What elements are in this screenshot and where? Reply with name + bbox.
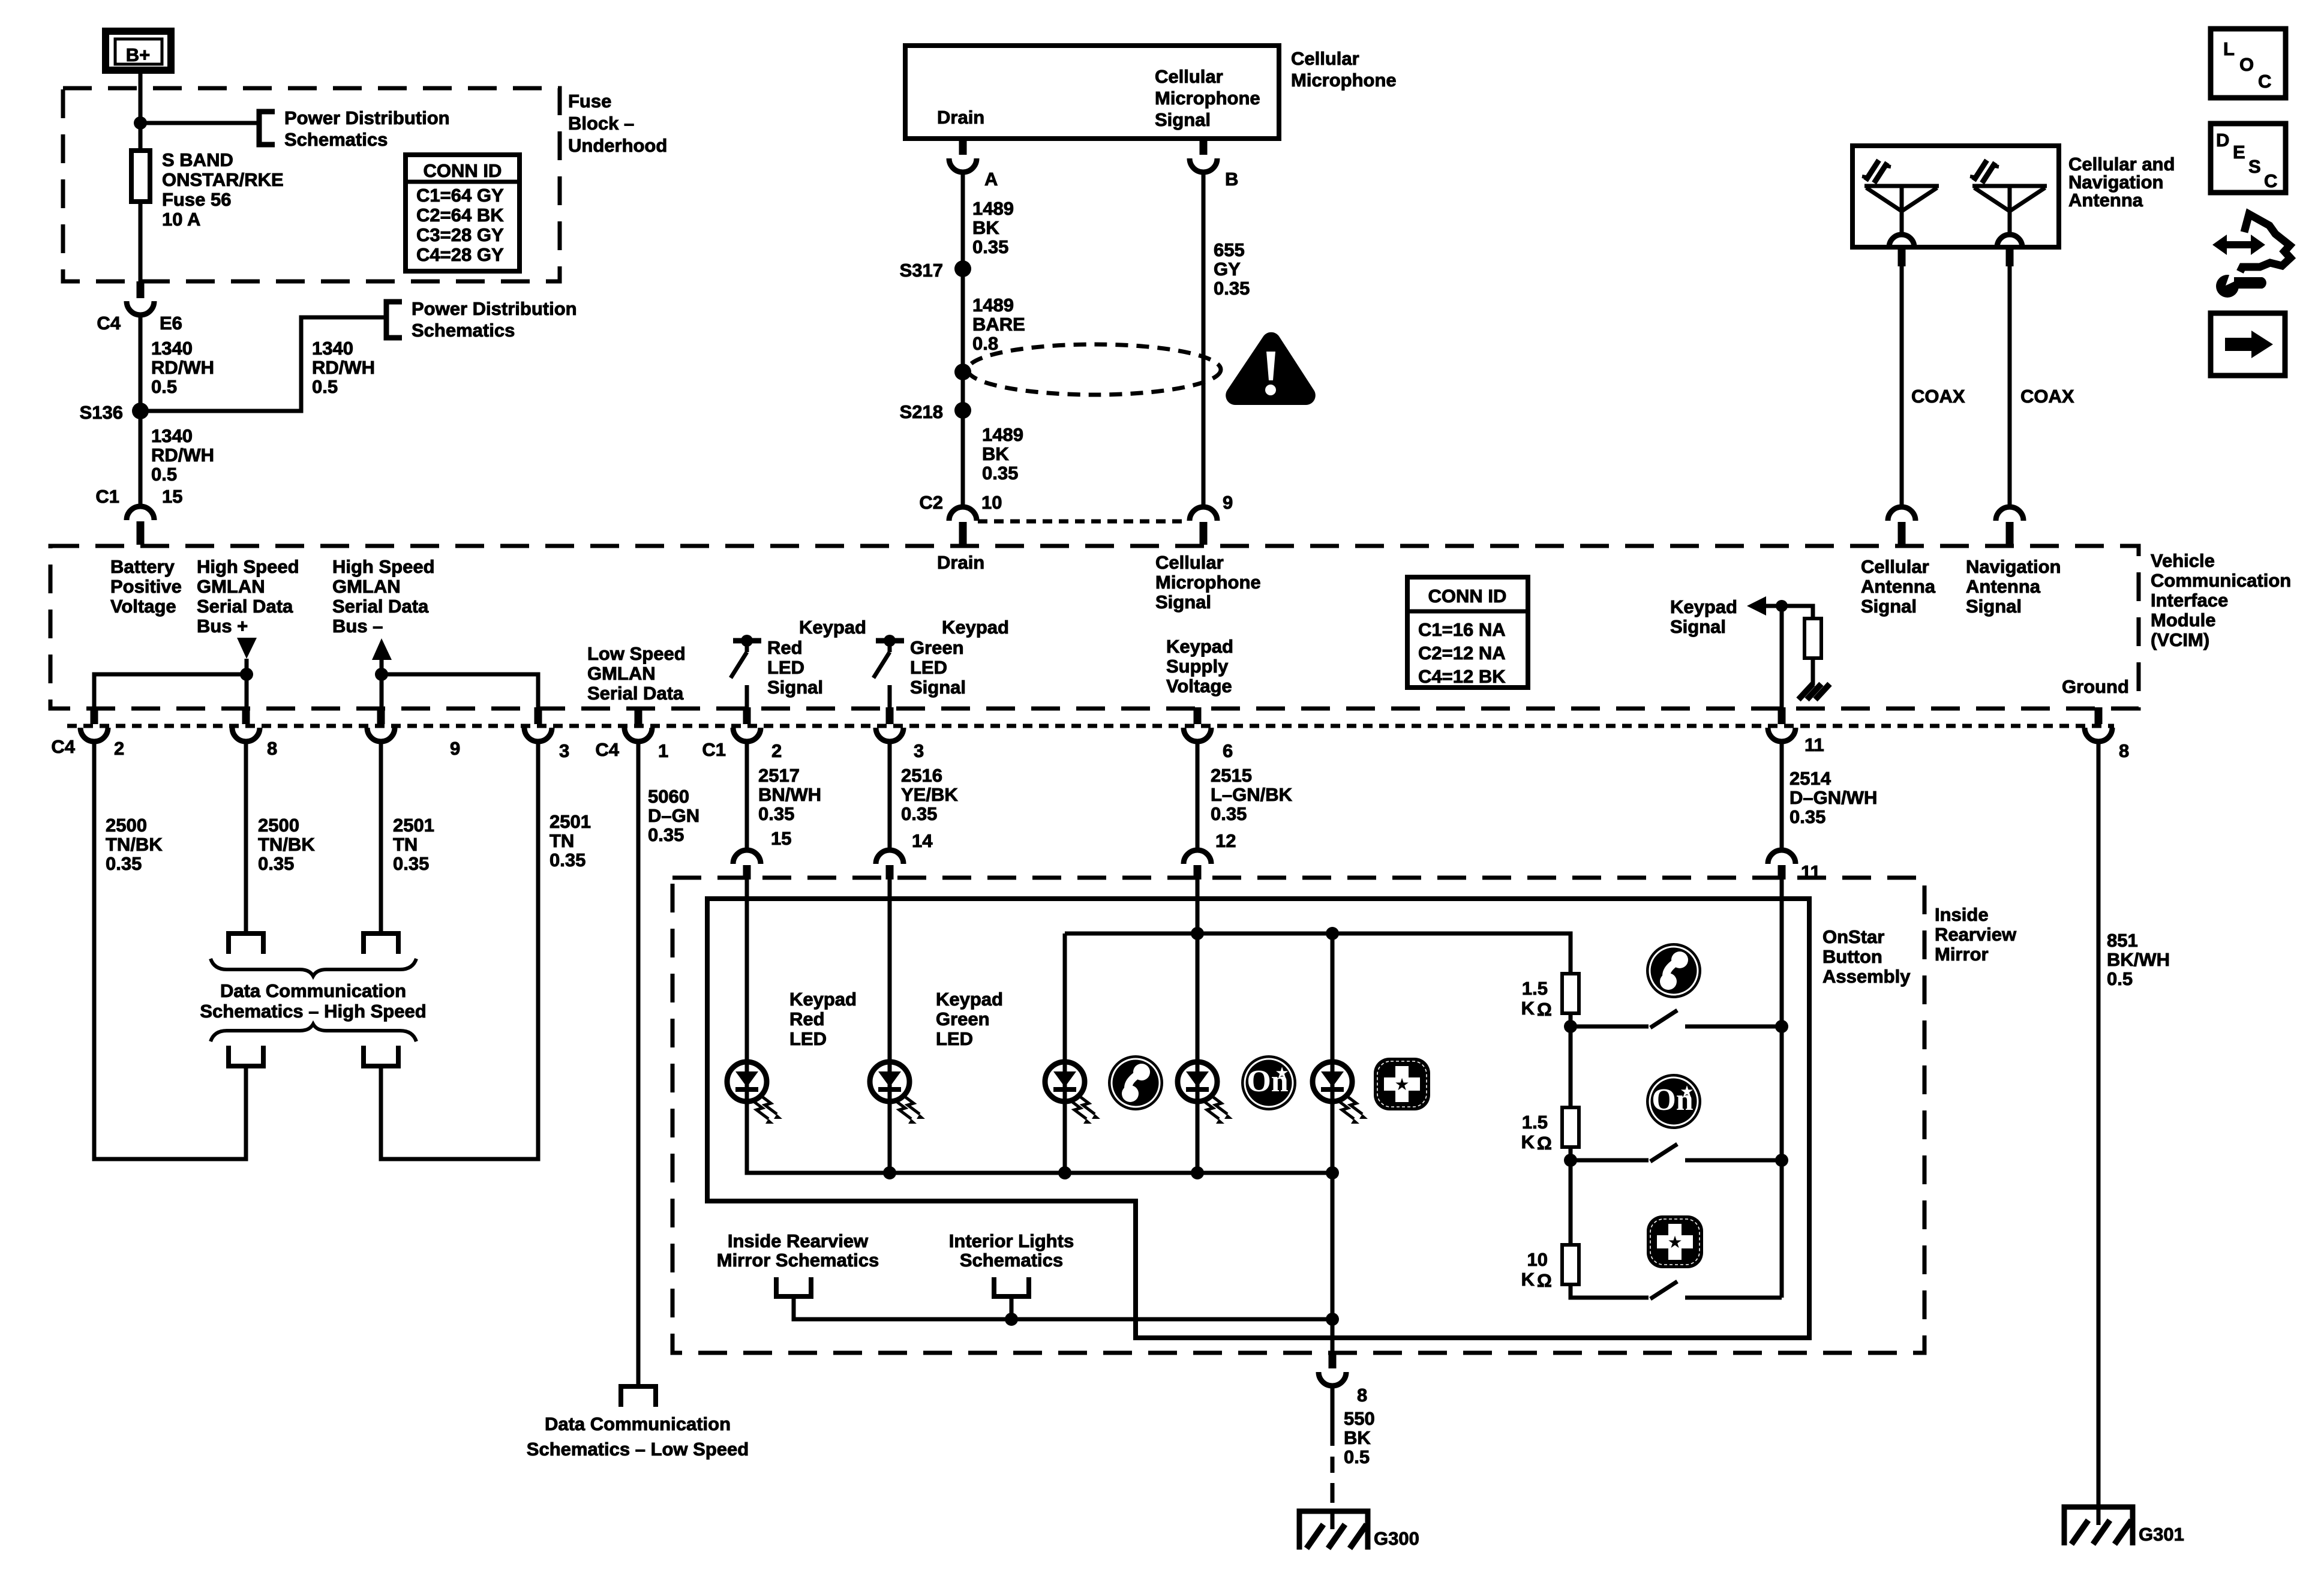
svg-text:C4: C4 (51, 736, 75, 757)
svg-text:2501: 2501 (393, 815, 434, 836)
svg-text:S218: S218 (900, 401, 943, 422)
wire status LED 3 (1331, 933, 1335, 1062)
svg-text:Serial Data: Serial Data (332, 596, 429, 617)
svg-text:TN/BK: TN/BK (258, 834, 315, 855)
svg-text:2516: 2516 (901, 765, 942, 786)
status LED 3 (1313, 1062, 1368, 1124)
svg-text:Signal: Signal (1966, 596, 2022, 617)
svg-text:5060: 5060 (648, 786, 689, 807)
svg-text:Battery: Battery (110, 556, 175, 577)
svg-text:Low Speed: Low Speed (587, 643, 686, 664)
svg-text:Drain: Drain (937, 552, 984, 573)
microphone pin A (959, 139, 967, 155)
svg-text:1: 1 (658, 740, 668, 761)
svg-text:Fuse: Fuse (568, 91, 611, 112)
svg-text:Ω: Ω (1537, 1270, 1552, 1291)
connector pin 2 (91, 707, 98, 724)
connector pin 8 onstar ground (1329, 1353, 1337, 1368)
svg-text:1489: 1489 (972, 198, 1014, 219)
svg-text:BK: BK (1344, 1427, 1371, 1448)
connector pin 11 (1778, 707, 1786, 724)
svg-text:Green: Green (910, 637, 964, 658)
svg-text:Fuse 56: Fuse 56 (162, 189, 231, 210)
navigation antenna element (1970, 160, 2047, 247)
vehicle repair reference icon (2212, 214, 2290, 298)
svg-text:Cellular: Cellular (1155, 66, 1223, 87)
svg-text:YE/BK: YE/BK (901, 784, 958, 805)
connector pin 9 (377, 707, 385, 724)
svg-text:C1: C1 (95, 486, 119, 507)
wire keypad green LED (888, 878, 892, 1062)
emergency button switch (1650, 1281, 1677, 1299)
svg-text:Schematics: Schematics (412, 320, 515, 341)
wire B+ down to fuse (139, 70, 143, 151)
svg-text:Communication: Communication (2151, 570, 2291, 591)
svg-text:Interior Lights: Interior Lights (949, 1230, 1074, 1251)
svg-text:2500: 2500 (258, 815, 299, 836)
svg-text:TN: TN (393, 834, 418, 855)
svg-text:Mirror: Mirror (1935, 944, 1989, 965)
wire 2516 YE/BK keypad green LED (888, 742, 892, 850)
svg-text:CONN ID: CONN ID (1428, 586, 1507, 607)
svg-text:2501: 2501 (550, 811, 591, 832)
svg-text:1340: 1340 (151, 338, 193, 359)
power distribution schematics reference bracket (top) (259, 112, 275, 145)
wire pin 2 to bus + (94, 674, 247, 707)
svg-text:0.5: 0.5 (1344, 1446, 1370, 1467)
svg-text:C4: C4 (595, 739, 619, 760)
wire green LED to return bus (888, 1101, 892, 1173)
svg-text:D–GN/WH: D–GN/WH (1789, 787, 1877, 808)
inside rearview mirror dashed box (672, 878, 1924, 1353)
coax connector cellular (1888, 507, 1915, 521)
svg-text:C1=64 GY: C1=64 GY (416, 185, 504, 206)
warning note triangle (1226, 332, 1316, 405)
wire keypad red LED (745, 878, 749, 1062)
wire S136 to VCIM C1 (139, 411, 143, 506)
ground G300 (1299, 1511, 1368, 1550)
connector C4 terminal E6 (137, 281, 145, 298)
svg-text:C4=28 GY: C4=28 GY (416, 244, 504, 265)
svg-text:S136: S136 (80, 402, 123, 423)
svg-text:D–GN: D–GN (648, 805, 699, 826)
svg-text:K: K (1521, 1269, 1535, 1290)
svg-text:K: K (1521, 998, 1535, 1019)
svg-text:1489: 1489 (972, 295, 1014, 316)
svg-text:E6: E6 (160, 313, 182, 334)
svg-text:0.5: 0.5 (2107, 968, 2133, 989)
wire 2501 TN pin 9 (379, 742, 383, 933)
internal ground symbol (1798, 684, 1830, 700)
svg-text:3: 3 (914, 740, 924, 761)
svg-text:Voltage: Voltage (110, 596, 176, 617)
cellular antenna element (1862, 160, 1939, 247)
svg-text:★: ★ (1394, 1075, 1409, 1094)
svg-text:Cellular: Cellular (1861, 556, 1929, 577)
svg-text:C2=64 BK: C2=64 BK (416, 205, 504, 226)
svg-text:Rearview: Rearview (1935, 924, 2017, 945)
wire 2501 TN pin 3 (381, 742, 538, 1159)
splice S317 (954, 260, 971, 277)
wire status LED 2 (1196, 933, 1200, 1062)
wire C4 to S136 (139, 315, 143, 411)
wire 5060 D-GN low speed GMLAN (636, 742, 641, 1386)
brace lower (211, 1024, 416, 1041)
keypad green LED signal switch (873, 635, 904, 678)
wire 2515 L-GN/BK keypad supply voltage (1196, 742, 1200, 850)
cellular microphone signal wire B (1202, 172, 1206, 507)
shield dashed ellipse (968, 344, 1221, 395)
svg-text:C4: C4 (97, 313, 121, 334)
svg-text:Cellular: Cellular (1155, 552, 1224, 573)
svg-text:Microphone: Microphone (1155, 88, 1260, 109)
svg-text:★: ★ (1667, 1233, 1682, 1251)
svg-text:C2: C2 (919, 492, 943, 513)
svg-text:2517: 2517 (758, 765, 800, 786)
svg-text:S BAND: S BAND (162, 149, 233, 170)
cellular microphone box (905, 46, 1279, 139)
svg-text:Keypad: Keypad (936, 989, 1003, 1010)
power distribution schematics reference bracket (S136 branch) (386, 302, 402, 338)
svg-text:BK: BK (972, 217, 999, 238)
svg-text:0.35: 0.35 (648, 824, 684, 845)
svg-text:Data Communication: Data Communication (220, 980, 406, 1001)
svg-text:Antenna: Antenna (1966, 576, 2041, 597)
cellular and navigation antenna box (1852, 146, 2059, 247)
svg-text:0.8: 0.8 (972, 333, 998, 354)
data communication high speed reference brackets (229, 933, 263, 954)
resistor 1.5K (onstar) (1562, 1107, 1579, 1147)
keypad supply bus (1065, 933, 1571, 974)
wire 2517 BN/WH keypad red LED (745, 742, 749, 850)
svg-text:Signal: Signal (1861, 596, 1917, 617)
svg-text:GY: GY (1214, 259, 1241, 280)
svg-text:15: 15 (771, 828, 791, 849)
svg-text:Cellular: Cellular (1291, 48, 1359, 69)
svg-text:Serial Data: Serial Data (197, 596, 293, 617)
svg-text:C: C (2264, 170, 2277, 191)
wire resistor 3 to switch 3 (1571, 1284, 1649, 1298)
wire bus - to pin 3 (382, 674, 538, 707)
connector pin 8 (242, 707, 250, 724)
svg-text:GMLAN: GMLAN (332, 576, 401, 597)
svg-text:C1: C1 (702, 739, 726, 760)
connector pin 3 (535, 707, 542, 724)
svg-text:2514: 2514 (1789, 768, 1831, 789)
connector pin 15 (733, 850, 761, 864)
svg-text:Schematics: Schematics (960, 1250, 1063, 1271)
svg-text:1340: 1340 (151, 425, 193, 446)
svg-text:Bus +: Bus + (197, 616, 248, 637)
svg-text:Keypad: Keypad (1166, 636, 1233, 657)
brace upper (211, 959, 416, 976)
wire resistor chain node 1 (1569, 1013, 1573, 1107)
junction on B+ feed (134, 116, 147, 130)
keypad signal internal wire (1766, 606, 1782, 707)
wire to power distribution reference (140, 121, 259, 125)
svg-text:550: 550 (1344, 1408, 1375, 1429)
svg-text:0.35: 0.35 (972, 236, 1008, 257)
vehicle communication interface module VCIM dashed box (50, 546, 2139, 709)
svg-text:LED: LED (936, 1028, 973, 1049)
bus + terminator arrow (237, 638, 257, 659)
svg-text:RD/WH: RD/WH (151, 445, 214, 466)
wire resistor to internal ground (1811, 658, 1815, 685)
svg-text:OnStar: OnStar (1822, 926, 1884, 947)
bus - terminator arrow (372, 638, 392, 660)
svg-text:ONSTAR/RKE: ONSTAR/RKE (162, 169, 284, 190)
svg-text:LED: LED (910, 657, 947, 678)
svg-text:GMLAN: GMLAN (587, 663, 656, 684)
resistor 10K (emergency) (1562, 1245, 1579, 1284)
svg-text:2500: 2500 (106, 815, 147, 836)
svg-text:Serial Data: Serial Data (587, 683, 684, 704)
splice S218 (954, 402, 971, 419)
wire 2514 D-GN/WH keypad signal (1780, 742, 1784, 850)
wire interior lights to ground wire (1010, 1296, 1014, 1319)
svg-text:Microphone: Microphone (1291, 70, 1397, 91)
inline connector body dotted line (67, 724, 2114, 728)
svg-text:S317: S317 (900, 260, 943, 281)
svg-text:Bus –: Bus – (332, 616, 383, 637)
connector C2 body dotted line (978, 520, 1188, 524)
svg-text:0.35: 0.35 (106, 853, 142, 874)
svg-text:Underhood: Underhood (568, 135, 667, 156)
svg-text:12: 12 (1215, 830, 1236, 851)
LOC reference icon (2211, 29, 2286, 98)
svg-text:Signal: Signal (767, 677, 823, 698)
svg-text:1.5: 1.5 (1522, 1112, 1548, 1133)
svg-text:C: C (2258, 71, 2271, 92)
wire 2500 TN/BK pin 8 (244, 742, 248, 933)
svg-text:BARE: BARE (972, 314, 1025, 335)
svg-text:Schematics – High Speed: Schematics – High Speed (200, 1001, 426, 1022)
svg-text:0.35: 0.35 (550, 849, 585, 870)
svg-text:0.35: 0.35 (393, 853, 429, 874)
svg-text:8: 8 (267, 738, 277, 759)
onstar icon small (1241, 1055, 1296, 1110)
splice S136 (132, 403, 149, 419)
svg-text:L–GN/BK: L–GN/BK (1211, 784, 1293, 805)
svg-text:Keypad: Keypad (799, 617, 866, 638)
svg-text:851: 851 (2107, 930, 2138, 951)
svg-text:COAX: COAX (2020, 386, 2074, 407)
svg-text:TN/BK: TN/BK (106, 834, 163, 855)
svg-text:Signal: Signal (1155, 592, 1211, 613)
svg-text:B: B (1225, 169, 1238, 190)
keypad signal wire in assembly (1780, 878, 1784, 1298)
svg-text:A: A (984, 169, 998, 190)
svg-text:Schematics – Low Speed: Schematics – Low Speed (527, 1439, 749, 1460)
svg-text:LED: LED (789, 1028, 827, 1049)
svg-text:High Speed: High Speed (197, 556, 299, 577)
svg-text:G301: G301 (2139, 1524, 2184, 1545)
svg-text:0.35: 0.35 (901, 803, 937, 824)
internal resistor (1804, 619, 1821, 658)
svg-text:0.35: 0.35 (982, 463, 1018, 484)
svg-text:Keypad: Keypad (942, 617, 1009, 638)
svg-text:0.35: 0.35 (258, 853, 294, 874)
CONN ID table VCIM (1407, 577, 1528, 688)
connector pin 2 (743, 707, 751, 724)
svg-text:6: 6 (1223, 740, 1233, 761)
drain wire A (961, 172, 965, 507)
svg-text:Positive: Positive (110, 576, 182, 597)
svg-text:14: 14 (912, 830, 933, 851)
phone button icon (1646, 943, 1701, 998)
wire 851 BK/WH ground pin 8 (2097, 742, 2101, 1507)
svg-text:Schematics: Schematics (284, 129, 388, 150)
svg-text:Drain: Drain (937, 107, 984, 128)
svg-text:Inside: Inside (1935, 904, 1989, 925)
svg-text:G300: G300 (1374, 1528, 1419, 1549)
cross icon small (1374, 1058, 1430, 1110)
svg-text:Button: Button (1822, 946, 1882, 967)
svg-text:9: 9 (1223, 492, 1233, 513)
svg-text:O: O (2239, 54, 2254, 75)
svg-text:Assembly: Assembly (1822, 966, 1911, 987)
svg-text:Supply: Supply (1166, 656, 1229, 677)
svg-text:Signal: Signal (1670, 616, 1726, 637)
svg-text:0.5: 0.5 (151, 376, 177, 397)
keypad red LED (727, 1062, 782, 1124)
connector pin 1 (635, 707, 642, 724)
svg-text:Red: Red (789, 1008, 825, 1029)
connector pin 12 (1184, 850, 1211, 864)
svg-text:Microphone: Microphone (1155, 572, 1261, 593)
svg-text:Power Distribution: Power Distribution (284, 107, 450, 128)
wire 550 BK to ground (1331, 1386, 1335, 1446)
svg-text:0.35: 0.35 (1789, 806, 1825, 827)
svg-text:1340: 1340 (312, 338, 353, 359)
wire S136 branch to power distribution (140, 317, 386, 411)
svg-text:2: 2 (114, 738, 124, 759)
coax connector navigation (1996, 507, 2023, 521)
svg-text:GMLAN: GMLAN (197, 576, 265, 597)
phone button switch (1571, 1025, 1649, 1029)
svg-text:(VCIM): (VCIM) (2151, 629, 2209, 650)
onstar button switch (1571, 1158, 1649, 1163)
svg-text:8: 8 (1357, 1385, 1367, 1406)
svg-text:Ω: Ω (1537, 1133, 1552, 1154)
svg-text:11: 11 (1804, 734, 1824, 755)
wire status LED 1 (1063, 933, 1067, 1062)
svg-text:Interface: Interface (2151, 590, 2228, 611)
svg-text:COAX: COAX (1911, 386, 1965, 407)
svg-text:Inside Rearview: Inside Rearview (728, 1230, 869, 1251)
svg-text:Voltage: Voltage (1166, 676, 1232, 697)
wire status LED 3 to ground node (1331, 1101, 1335, 1353)
svg-text:1.5: 1.5 (1522, 978, 1548, 999)
svg-text:Antenna: Antenna (2068, 190, 2143, 211)
keypad red LED signal switch (731, 635, 761, 678)
connector pin 6 (1194, 707, 1202, 724)
fuse block underhood dashed box (63, 88, 560, 281)
wire fuse to connector C4 (139, 202, 143, 281)
svg-text:8: 8 (2119, 740, 2129, 761)
DESC reference icon (2211, 124, 2286, 193)
data communication low speed reference bracket (621, 1386, 656, 1407)
svg-text:Signal: Signal (910, 677, 966, 698)
svg-text:0.5: 0.5 (312, 376, 338, 397)
wire red LED to return bus (747, 1101, 1332, 1173)
svg-text:0.5: 0.5 (151, 464, 177, 485)
svg-text:BK/WH: BK/WH (2107, 949, 2170, 970)
svg-text:0.35: 0.35 (1214, 278, 1250, 299)
svg-text:RD/WH: RD/WH (312, 357, 375, 378)
status LED 2 (1178, 1062, 1233, 1124)
svg-text:0.35: 0.35 (1211, 803, 1247, 824)
wire resistor chain node 2 (1569, 1147, 1573, 1245)
svg-text:Keypad: Keypad (1670, 596, 1737, 617)
svg-text:Module: Module (2151, 610, 2216, 631)
svg-text:BK: BK (982, 443, 1009, 464)
svg-text:BN/WH: BN/WH (758, 784, 821, 805)
svg-text:9: 9 (450, 738, 460, 759)
svg-text:RD/WH: RD/WH (151, 357, 214, 378)
onstar button assembly outline (707, 899, 1809, 1338)
svg-text:CONN ID: CONN ID (424, 160, 502, 181)
svg-text:Signal: Signal (1155, 109, 1211, 130)
phone icon small (1108, 1055, 1163, 1110)
svg-text:655: 655 (1214, 239, 1245, 260)
svg-text:10: 10 (981, 492, 1002, 513)
svg-text:Red: Red (767, 637, 803, 658)
svg-text:Green: Green (936, 1008, 990, 1029)
svg-text:3: 3 (559, 740, 569, 761)
resistor 1.5K (phone) (1562, 974, 1579, 1013)
svg-text:C1=16 NA: C1=16 NA (1418, 619, 1506, 640)
svg-text:C4=12 BK: C4=12 BK (1418, 666, 1506, 687)
svg-text:2515: 2515 (1211, 765, 1252, 786)
svg-text:C2=12 NA: C2=12 NA (1418, 643, 1506, 664)
svg-text:Vehicle: Vehicle (2151, 550, 2215, 571)
svg-text:S: S (2248, 156, 2261, 177)
fuse 56 S BAND ONSTAR/RKE 10A (131, 151, 150, 202)
junction at shield ellipse (954, 364, 971, 380)
battery positive B+ symbol (106, 31, 171, 70)
microphone pin B (1200, 139, 1208, 155)
svg-text:10 A: 10 A (162, 209, 200, 230)
svg-text:B+: B+ (126, 44, 151, 65)
connector pin 14 (876, 850, 903, 864)
wire status LED 1 to return bus (1063, 1101, 1067, 1173)
svg-text:Data Communication: Data Communication (545, 1413, 731, 1434)
svg-text:Antenna: Antenna (1861, 576, 1936, 597)
connector pin 3 (886, 707, 894, 724)
connector pin 8 (2095, 707, 2103, 724)
svg-text:Mirror Schematics: Mirror Schematics (717, 1250, 879, 1271)
wire bus + to pin 8 (245, 659, 249, 707)
svg-text:★: ★ (1275, 1064, 1289, 1082)
wire status LED 2 to return bus (1196, 1101, 1200, 1173)
CONN ID table fuse block (406, 155, 520, 271)
svg-text:Ω: Ω (1537, 999, 1552, 1020)
svg-text:D: D (2216, 130, 2229, 151)
internal pullup wire (1782, 606, 1813, 619)
status LED 1 (1045, 1062, 1100, 1124)
forward reference arrow icon (2211, 313, 2285, 376)
navigation antenna coax wire (2006, 247, 2014, 266)
svg-text:★: ★ (1680, 1082, 1694, 1100)
connector pin 11 (1768, 850, 1795, 864)
keypad signal arrow (1747, 596, 1766, 616)
svg-text:Keypad: Keypad (789, 989, 857, 1010)
svg-text:C3=28 GY: C3=28 GY (416, 224, 504, 245)
svg-text:1489: 1489 (982, 424, 1023, 445)
svg-text:High Speed: High Speed (332, 556, 435, 577)
svg-text:Ground: Ground (2062, 676, 2129, 697)
